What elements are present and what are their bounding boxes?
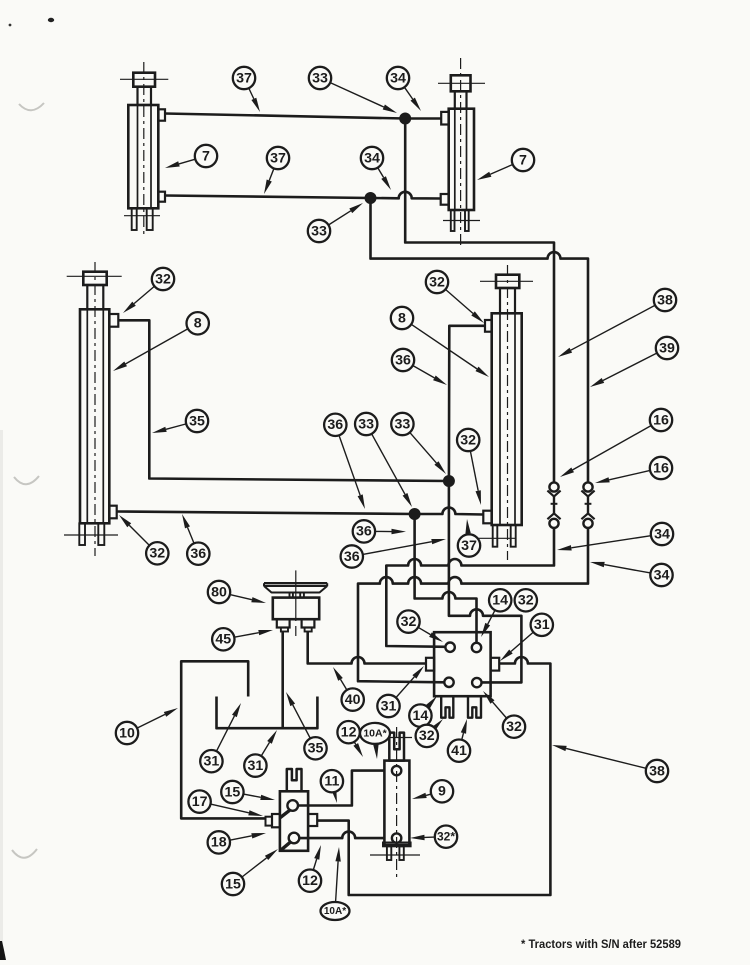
svg-text:10: 10	[119, 725, 135, 741]
svg-text:34: 34	[654, 526, 670, 542]
svg-text:37: 37	[461, 538, 477, 554]
svg-text:18: 18	[211, 835, 227, 851]
svg-text:33: 33	[358, 416, 374, 432]
svg-text:34: 34	[654, 567, 670, 583]
svg-text:80: 80	[211, 584, 227, 600]
svg-text:17: 17	[192, 794, 208, 810]
svg-text:38: 38	[657, 292, 673, 308]
svg-text:37: 37	[236, 70, 252, 86]
svg-text:9: 9	[438, 784, 446, 800]
svg-text:16: 16	[653, 412, 669, 428]
svg-text:32: 32	[518, 593, 534, 609]
svg-text:12: 12	[341, 724, 357, 740]
svg-text:37: 37	[270, 150, 286, 166]
svg-text:31: 31	[248, 758, 264, 774]
svg-text:32: 32	[429, 274, 445, 290]
svg-text:38: 38	[649, 763, 665, 779]
svg-text:* Tractors with S/N after 5258: * Tractors with S/N after 52589	[521, 937, 681, 951]
svg-text:12: 12	[302, 873, 318, 889]
svg-text:32: 32	[460, 432, 476, 448]
svg-text:11: 11	[324, 773, 339, 789]
svg-text:36: 36	[327, 417, 343, 433]
svg-text:8: 8	[194, 316, 202, 332]
svg-text:36: 36	[344, 549, 360, 565]
svg-text:32: 32	[401, 614, 417, 630]
svg-text:31: 31	[204, 753, 220, 769]
svg-text:34: 34	[364, 150, 380, 166]
svg-text:32: 32	[419, 728, 435, 744]
svg-text:34: 34	[390, 70, 406, 86]
svg-text:35: 35	[189, 413, 205, 429]
svg-text:33: 33	[312, 70, 328, 86]
svg-text:7: 7	[519, 152, 527, 168]
svg-text:32: 32	[506, 719, 522, 735]
svg-text:10A*: 10A*	[324, 906, 346, 917]
svg-text:33: 33	[395, 416, 411, 432]
svg-text:31: 31	[381, 698, 397, 714]
svg-text:40: 40	[345, 692, 361, 708]
svg-text:32: 32	[149, 546, 165, 562]
svg-text:10A*: 10A*	[363, 728, 387, 740]
svg-text:36: 36	[190, 546, 206, 562]
svg-text:31: 31	[534, 617, 550, 633]
svg-text:33: 33	[311, 223, 327, 239]
svg-text:7: 7	[202, 148, 210, 164]
svg-text:41: 41	[451, 743, 467, 759]
svg-text:35: 35	[308, 741, 324, 757]
svg-text:45: 45	[215, 632, 231, 648]
svg-text:39: 39	[659, 340, 675, 356]
svg-text:14: 14	[492, 593, 508, 609]
svg-text:15: 15	[225, 784, 241, 800]
svg-text:8: 8	[398, 310, 406, 326]
svg-text:14: 14	[413, 708, 429, 724]
svg-text:15: 15	[225, 876, 241, 892]
svg-text:36: 36	[395, 352, 411, 368]
svg-text:16: 16	[653, 460, 669, 476]
svg-text:32*: 32*	[437, 829, 455, 843]
svg-text:36: 36	[356, 524, 372, 540]
svg-text:32: 32	[155, 271, 171, 287]
